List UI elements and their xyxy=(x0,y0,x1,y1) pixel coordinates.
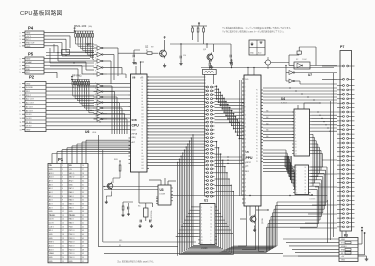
svg-text:35: 35 xyxy=(82,200,84,202)
svg-text:P1: P1 xyxy=(58,157,64,162)
IC U5 PPU xyxy=(242,75,263,206)
svg-text:14: 14 xyxy=(211,214,213,216)
svg-text:47: 47 xyxy=(82,246,84,248)
svg-text:D8: D8 xyxy=(305,193,307,195)
wire into P7 top xyxy=(322,66,337,79)
svg-text:16: 16 xyxy=(62,226,64,228)
wire P4 outputs xyxy=(44,33,94,61)
svg-text:7: 7 xyxy=(20,106,21,108)
svg-text:12: 12 xyxy=(62,211,64,213)
wire into P3 xyxy=(283,239,339,256)
svg-text:S-4504: S-4504 xyxy=(281,103,287,105)
svg-text:P2: P2 xyxy=(29,75,35,80)
svg-text:13: 13 xyxy=(20,130,22,132)
wire U5 top stubs xyxy=(247,67,254,75)
svg-text:27: 27 xyxy=(82,169,84,171)
legend table xyxy=(249,40,265,55)
svg-text:15: 15 xyxy=(62,223,64,225)
svg-text:A0 O: A0 O xyxy=(49,206,54,209)
svg-text:11: 11 xyxy=(201,240,203,242)
svg-text:IRQ 7: IRQ 7 xyxy=(26,95,31,97)
svg-text:P0: P0 xyxy=(256,152,258,154)
svg-text:15: 15 xyxy=(211,210,213,212)
svg-text:U2: U2 xyxy=(310,193,314,197)
svg-text:P0: P0 xyxy=(256,90,258,92)
svg-text:C10: C10 xyxy=(183,55,186,57)
svg-text:45: 45 xyxy=(82,238,84,240)
ground Q3 xyxy=(253,226,256,232)
svg-text:P8: P8 xyxy=(256,146,258,148)
svg-text:D4 I/O: D4 I/O xyxy=(26,118,32,120)
svg-text:P4: P4 xyxy=(256,102,258,104)
svg-text:P2: P2 xyxy=(256,158,258,160)
svg-text:VRAM: VRAM xyxy=(26,61,32,64)
wire bottom bus xyxy=(99,135,197,247)
filter FL1 and top bus xyxy=(201,60,334,88)
svg-text:U1: U1 xyxy=(204,199,208,203)
wire Q2 collector VCC xyxy=(164,37,166,49)
svg-text:03E): 03E) xyxy=(132,137,136,139)
svg-text:12: 12 xyxy=(211,220,213,222)
wire bus U5 to U4 left xyxy=(263,110,294,141)
svg-text:11: 11 xyxy=(20,122,22,124)
svg-text:28: 28 xyxy=(82,173,84,175)
svg-text:33: 33 xyxy=(82,192,84,194)
svg-text:10: 10 xyxy=(211,227,213,229)
IC U4 xyxy=(292,103,320,156)
svg-text:D7: D7 xyxy=(305,190,307,192)
svg-text:13: 13 xyxy=(211,217,213,219)
svg-text:U6: U6 xyxy=(132,76,136,80)
wire Q3 xyxy=(240,206,269,219)
svg-text:PD4 IO: PD4 IO xyxy=(69,242,75,244)
IC U1 sublabel xyxy=(201,247,208,249)
resistor network RM1 label xyxy=(74,24,92,28)
svg-text:22: 22 xyxy=(62,249,64,251)
svg-text:CPU: CPU xyxy=(132,124,140,128)
connector P2 label xyxy=(29,75,35,80)
wire P1 to U6 bus xyxy=(52,140,131,163)
svg-text:A4 O: A4 O xyxy=(49,191,54,194)
svg-text:44: 44 xyxy=(82,234,84,236)
wire nested bus U2 down xyxy=(220,167,328,252)
wire U7 outputs xyxy=(107,48,126,84)
wire U6 top stubs xyxy=(135,61,144,74)
svg-text:A12 O: A12 O xyxy=(49,176,55,179)
IC U7b inverters xyxy=(285,65,337,84)
wire RM1 fanout xyxy=(76,41,95,59)
IC U2 xyxy=(293,165,311,195)
resistor R7 xyxy=(140,50,158,55)
note bottom xyxy=(117,260,155,264)
svg-text:PIN NO.: PIN NO. xyxy=(49,215,56,217)
wire bus U6 to cartridge rows xyxy=(149,77,206,165)
svg-text:21.4M: 21.4M xyxy=(302,59,307,61)
svg-text:8: 8 xyxy=(62,196,63,198)
svg-text:43: 43 xyxy=(82,230,84,232)
svg-text:P5: P5 xyxy=(28,52,34,57)
svg-text:P1: P1 xyxy=(256,93,258,95)
svg-text:D3: D3 xyxy=(305,177,307,179)
svg-text:D0 I/O: D0 I/O xyxy=(49,219,55,221)
svg-text:7: 7 xyxy=(62,192,63,194)
svg-text:3: 3 xyxy=(20,65,21,67)
svg-text:M2 O: M2 O xyxy=(49,230,54,232)
svg-text:PPU: PPU xyxy=(246,156,254,160)
svg-text:P9: P9 xyxy=(256,118,258,120)
svg-text:+5V 1: +5V 1 xyxy=(26,36,31,38)
svg-text:A2 O: A2 O xyxy=(49,199,54,202)
svg-text:42: 42 xyxy=(82,226,84,228)
svg-text:Q3 S9: Q3 S9 xyxy=(262,217,264,224)
svg-text:P4: P4 xyxy=(256,133,258,135)
svg-text:A10 OUT: A10 OUT xyxy=(26,102,35,105)
svg-text:2: 2 xyxy=(20,36,21,38)
svg-text:21.47727MHz: 21.47727MHz xyxy=(151,210,153,221)
svg-text:10: 10 xyxy=(296,193,298,195)
svg-text:5: 5 xyxy=(20,99,21,101)
svg-text:CPU基板回路図: CPU基板回路図 xyxy=(20,9,63,17)
svg-text:P7: P7 xyxy=(256,111,258,113)
svg-text:U6: U6 xyxy=(85,130,89,134)
svg-text:PIN NO.: PIN NO. xyxy=(69,215,76,217)
svg-text:1: 1 xyxy=(20,33,21,35)
svg-text:RP RM2: RP RM2 xyxy=(72,74,82,78)
wire P7 left feeders xyxy=(300,73,337,243)
svg-text:P4: P4 xyxy=(28,26,34,31)
svg-text:D5: D5 xyxy=(305,183,307,185)
svg-text:6: 6 xyxy=(20,103,21,105)
resistor R9 xyxy=(121,202,133,217)
svg-text:8: 8 xyxy=(20,110,21,112)
svg-text:PA3 O: PA3 O xyxy=(69,202,75,205)
wire to U3 left xyxy=(103,186,158,190)
wire P4-P5 crossbus xyxy=(46,44,94,66)
svg-text:PA5 O: PA5 O xyxy=(69,195,75,198)
svg-text:GND: GND xyxy=(26,83,31,85)
svg-text:12: 12 xyxy=(20,126,22,128)
svg-text:CLK O: CLK O xyxy=(49,226,55,228)
connector P1 table xyxy=(48,164,88,263)
svg-text:19: 19 xyxy=(62,238,64,240)
svg-text:23: 23 xyxy=(62,253,64,255)
oscillator X2 xyxy=(289,47,337,69)
svg-text:32: 32 xyxy=(82,188,84,190)
wire U5 bottom drops xyxy=(238,206,264,251)
svg-text:20: 20 xyxy=(62,242,64,244)
svg-text:SOUND: SOUND xyxy=(26,87,33,89)
transistor Q1 xyxy=(207,53,214,62)
svg-text:48: 48 xyxy=(82,249,84,251)
svg-text:A14 O: A14 O xyxy=(49,245,55,248)
svg-text:1: 1 xyxy=(62,169,63,171)
svg-text:D1 I/O: D1 I/O xyxy=(26,122,32,124)
svg-text:12: 12 xyxy=(295,147,297,149)
svg-text:P1: P1 xyxy=(256,124,258,126)
resistor network RM2 label xyxy=(72,74,82,78)
svg-text:51: 51 xyxy=(82,261,84,263)
svg-text:5: 5 xyxy=(20,72,21,74)
svg-text:34: 34 xyxy=(82,196,84,198)
wire nested rings U1 xyxy=(179,207,233,255)
svg-text:A6 O: A6 O xyxy=(49,183,54,186)
svg-text:D6: D6 xyxy=(305,186,307,188)
svg-text:3: 3 xyxy=(20,39,21,41)
svg-text:VCC: VCC xyxy=(26,65,31,67)
svg-text:9: 9 xyxy=(95,70,96,72)
svg-text:D2: D2 xyxy=(305,174,307,176)
svg-text:11: 11 xyxy=(211,223,213,225)
svg-text:PD3 IO: PD3 IO xyxy=(69,246,75,248)
wire P5 outputs xyxy=(44,59,94,86)
svg-text:D6 I/O: D6 I/O xyxy=(26,126,32,128)
svg-text:30: 30 xyxy=(82,181,84,183)
svg-text:A8 OUT: A8 OUT xyxy=(26,109,34,112)
svg-text:PD0 I: PD0 I xyxy=(69,226,74,228)
connector P7 label xyxy=(340,45,344,49)
IC U8 label xyxy=(85,130,96,134)
capacitor C10 xyxy=(179,50,186,65)
resistor network RM1 xyxy=(74,28,94,47)
svg-text:SND OUT: SND OUT xyxy=(26,42,35,44)
connector P4 xyxy=(20,31,45,48)
svg-text:6: 6 xyxy=(62,188,63,190)
svg-text:10: 10 xyxy=(201,237,203,239)
wire osc block xyxy=(170,43,231,52)
svg-text:PD5 IO: PD5 IO xyxy=(69,238,75,240)
svg-text:LS 373: LS 373 xyxy=(310,199,316,201)
svg-text:GND: GND xyxy=(26,130,31,132)
svg-text:7: 7 xyxy=(95,99,96,101)
svg-text:5: 5 xyxy=(95,93,96,95)
svg-text:25: 25 xyxy=(62,261,64,263)
svg-text:RF: RF xyxy=(119,245,121,247)
connector cartridge edge xyxy=(205,86,215,197)
svg-text:P5: P5 xyxy=(256,136,258,138)
svg-text:11: 11 xyxy=(95,110,97,112)
svg-text:VRAM: VRAM xyxy=(49,252,55,255)
svg-text:31: 31 xyxy=(82,184,84,186)
ground Q1 emitter xyxy=(210,65,213,69)
transistor Q2 label xyxy=(145,46,154,49)
svg-text:P6: P6 xyxy=(256,139,258,141)
IC U1 label xyxy=(204,199,208,203)
svg-text:P2: P2 xyxy=(256,96,258,98)
svg-text:1: 1 xyxy=(95,44,96,46)
transistor Q5 xyxy=(105,159,121,204)
svg-text:3: 3 xyxy=(95,51,96,53)
IC U1 xyxy=(198,204,217,246)
svg-text:4: 4 xyxy=(62,181,63,183)
svg-text:P5: P5 xyxy=(256,105,258,107)
svg-text:(RP2C: (RP2C xyxy=(246,162,252,164)
svg-text:SND O: SND O xyxy=(69,177,75,179)
svg-text:PD1 IO: PD1 IO xyxy=(69,253,75,255)
note line 1 xyxy=(222,26,292,30)
svg-text:P3: P3 xyxy=(256,161,258,163)
svg-text:11: 11 xyxy=(295,144,297,146)
svg-text:3: 3 xyxy=(20,91,21,93)
svg-text:1: 1 xyxy=(95,82,96,84)
svg-text:PD0 IO: PD0 IO xyxy=(69,257,75,259)
svg-text:12: 12 xyxy=(201,243,203,245)
wire P7 to P3 xyxy=(342,231,346,238)
svg-text:GND: GND xyxy=(26,59,31,61)
svg-text:INT 2: INT 2 xyxy=(26,39,31,41)
svg-text:SND: SND xyxy=(26,69,31,71)
svg-text:A7 O: A7 O xyxy=(49,180,54,183)
svg-text:PD7 IO: PD7 IO xyxy=(69,230,75,232)
svg-text:PA4 O: PA4 O xyxy=(69,199,75,202)
svg-text:P7: P7 xyxy=(340,45,344,49)
wire U1 left curtain xyxy=(176,134,198,256)
svg-text:36: 36 xyxy=(82,203,84,205)
svg-text:2: 2 xyxy=(20,87,21,89)
svg-text:U7: U7 xyxy=(87,42,91,46)
wire staircase cartridge to U5 xyxy=(215,85,245,139)
svg-text:(10k): (10k) xyxy=(88,26,92,28)
svg-text:A15 O: A15 O xyxy=(49,248,55,251)
transistor Q4 xyxy=(264,57,289,69)
svg-text:PA2 O: PA2 O xyxy=(69,206,75,209)
svg-text:RM3: RM3 xyxy=(114,159,118,161)
svg-text:A11 OUT: A11 OUT xyxy=(26,98,35,101)
svg-text:5: 5 xyxy=(95,57,96,59)
svg-text:PD6 IO: PD6 IO xyxy=(69,234,75,236)
svg-text:SND O: SND O xyxy=(69,173,75,175)
IC U4 label xyxy=(281,97,287,105)
svg-text:U7: U7 xyxy=(308,73,312,77)
wire P2 bus to U6 xyxy=(46,83,129,129)
IC U6 SUB CPU xyxy=(129,74,150,172)
connector P1 label xyxy=(58,157,64,162)
svg-text:A1 O: A1 O xyxy=(49,202,54,205)
svg-text:16: 16 xyxy=(211,207,213,209)
svg-text:9: 9 xyxy=(95,104,96,106)
wire bottom border xyxy=(104,253,339,256)
wire long mid horizontal xyxy=(171,195,328,196)
ground P3 xyxy=(358,256,368,261)
svg-text:11: 11 xyxy=(62,207,64,209)
svg-text:P3: P3 xyxy=(256,130,258,132)
resistor network RM2 xyxy=(71,76,90,96)
wire cartridge lower curtain xyxy=(215,141,234,233)
svg-text:6527: 6527 xyxy=(132,130,138,132)
wire X1 to U6 xyxy=(139,172,153,207)
svg-text:P7: P7 xyxy=(256,142,258,144)
svg-text:RM1-103: RM1-103 xyxy=(74,24,87,28)
IC U7 label xyxy=(87,42,97,46)
svg-text:U4: U4 xyxy=(281,97,285,101)
transistor Q3 xyxy=(250,215,257,224)
svg-text:9: 9 xyxy=(62,200,63,202)
svg-text:P3: P3 xyxy=(256,99,258,101)
wire U5 lower right to U2 xyxy=(263,150,294,189)
svg-text:P1: P1 xyxy=(256,155,258,157)
svg-text:4: 4 xyxy=(20,95,21,97)
svg-text:P9: P9 xyxy=(256,149,258,151)
svg-text:46: 46 xyxy=(82,242,84,244)
svg-text:PA7 O: PA7 O xyxy=(69,187,75,190)
connector P7 xyxy=(337,51,355,232)
svg-text:D0: D0 xyxy=(305,167,307,169)
svg-text:GND: GND xyxy=(341,260,346,262)
svg-text:1: 1 xyxy=(20,59,21,61)
svg-text:GND: GND xyxy=(26,33,31,35)
svg-text:X2: X2 xyxy=(296,59,298,61)
svg-text:D4: D4 xyxy=(305,180,307,182)
note line 2 xyxy=(222,30,285,34)
IC U7 inverters xyxy=(94,44,108,76)
svg-text:A13 O: A13 O xyxy=(49,172,55,175)
transistor Q1 label xyxy=(203,49,207,51)
transistor Q3 label xyxy=(262,217,264,224)
svg-text:PA1 O: PA1 O xyxy=(69,218,75,221)
connector P5 label xyxy=(28,52,34,57)
svg-text:38: 38 xyxy=(82,211,84,213)
svg-text:26: 26 xyxy=(82,165,84,167)
wire U4 right fanout xyxy=(311,111,338,186)
connector P4 label xyxy=(28,26,34,31)
capacitor C11 xyxy=(229,48,232,64)
wire mid lines into U5 xyxy=(215,80,245,196)
svg-text:29: 29 xyxy=(82,177,84,179)
wire U8 outputs xyxy=(107,86,127,134)
svg-text:49: 49 xyxy=(82,253,84,255)
title CPU基板回路図 xyxy=(20,9,63,17)
svg-text:4: 4 xyxy=(20,42,21,44)
svg-text:24: 24 xyxy=(62,257,64,259)
svg-text:40: 40 xyxy=(82,219,84,221)
svg-text:10: 10 xyxy=(20,118,22,120)
svg-text:7: 7 xyxy=(95,64,96,66)
svg-text:18: 18 xyxy=(62,234,64,236)
svg-text:U3: U3 xyxy=(160,188,164,192)
svg-text:3: 3 xyxy=(95,88,96,90)
svg-text:LS04: LS04 xyxy=(92,132,96,134)
svg-text:5: 5 xyxy=(20,46,21,48)
svg-text:14: 14 xyxy=(295,154,297,156)
svg-text:14: 14 xyxy=(62,219,64,221)
svg-text:2: 2 xyxy=(20,62,21,64)
svg-text:D3 I/O: D3 I/O xyxy=(26,114,32,116)
svg-text:U5: U5 xyxy=(246,150,250,154)
svg-text:R/W O: R/W O xyxy=(49,242,55,244)
ground Q2 emitter xyxy=(163,64,166,68)
svg-text:D1 I/O: D1 I/O xyxy=(49,223,55,225)
IC U8 inverters xyxy=(94,82,108,121)
wire U4 to U2 xyxy=(285,156,295,183)
svg-text:P2: P2 xyxy=(256,127,258,129)
svg-text:/IRQ I: /IRQ I xyxy=(69,181,74,183)
svg-text:41: 41 xyxy=(82,223,84,225)
svg-text:A3 O: A3 O xyxy=(49,195,54,198)
svg-text:13: 13 xyxy=(95,115,97,117)
svg-text:1: 1 xyxy=(62,165,63,167)
wire U3 top xyxy=(149,178,176,185)
IC U3 xyxy=(156,185,173,205)
connector P3 xyxy=(339,238,358,262)
svg-text:PA0 O: PA0 O xyxy=(69,222,75,225)
svg-text:PA6 O: PA6 O xyxy=(69,191,75,194)
svg-text:10: 10 xyxy=(62,203,64,205)
svg-text:(RP2A: (RP2A xyxy=(132,133,138,136)
svg-text:17: 17 xyxy=(62,230,64,232)
svg-text:PD2 IO: PD2 IO xyxy=(69,249,75,251)
svg-text:3: 3 xyxy=(62,177,63,179)
resistor pull-up P3 xyxy=(358,227,366,255)
svg-text:50: 50 xyxy=(82,257,84,259)
